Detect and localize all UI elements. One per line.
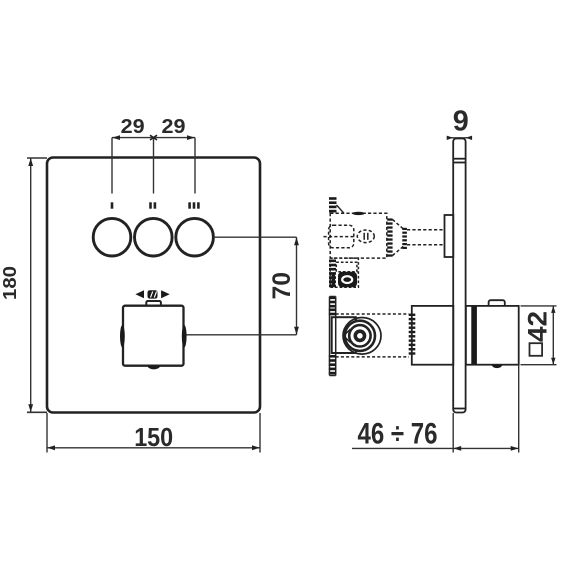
cartridge ring 1 bbox=[355, 331, 364, 340]
cartridge ring 3 bbox=[345, 321, 375, 351]
wall plate cap line bottom bbox=[453, 408, 465, 410]
valve body bbox=[330, 213, 387, 258]
knob index mark I bbox=[111, 202, 114, 208]
dim 180 arrow bottom bbox=[28, 404, 33, 412]
wall plate cap line top b bbox=[453, 162, 465, 164]
handle top tab bbox=[146, 301, 161, 306]
dim 70 arrow top bbox=[294, 237, 299, 245]
dim 42 line bbox=[552, 306, 554, 365]
svg-text:70: 70 bbox=[268, 272, 296, 300]
bracket teeth mid (between valves) bbox=[329, 260, 336, 288]
mounting bracket strip bbox=[330, 297, 336, 376]
cartridge outer ellipse bbox=[343, 318, 381, 355]
svg-text:29: 29 bbox=[162, 116, 186, 138]
boss on valve body top bbox=[352, 212, 364, 215]
stem flange bbox=[445, 215, 454, 257]
dim 150 arrow left bbox=[47, 445, 55, 450]
dim 42 arrow bottom bbox=[551, 358, 555, 365]
dim 150 extension line right bbox=[259, 413, 261, 453]
knob index mark III bbox=[188, 202, 199, 208]
sleeve bbox=[412, 306, 454, 365]
dim 9 line bbox=[448, 137, 471, 139]
mixing arrow centre marks bbox=[148, 290, 158, 298]
svg-text:9: 9 bbox=[453, 106, 469, 138]
extension line handle face down bbox=[518, 365, 520, 453]
cartridge left wedge bbox=[344, 329, 351, 343]
dim 29-29 line bbox=[112, 137, 195, 139]
handle left bump bbox=[120, 325, 125, 347]
bracket slant (upper valve) bbox=[337, 205, 345, 213]
mixing arrow left bbox=[135, 290, 144, 298]
bracket teeth small (below outlet) bbox=[330, 297, 337, 308]
dim 29 tick right bbox=[187, 135, 195, 140]
extension line bottom-left bbox=[27, 411, 47, 413]
handle square bbox=[123, 306, 184, 366]
knob 1 bbox=[93, 218, 131, 256]
dim 46-76 arrow right bbox=[511, 446, 519, 451]
dim 46-76 arrow left bbox=[453, 446, 461, 451]
dim 180 arrow top bbox=[28, 158, 33, 166]
threaded neck (upper valve) bbox=[402, 228, 407, 249]
cartridge hidden body bbox=[336, 314, 409, 357]
dim 180 line bbox=[30, 158, 32, 412]
svg-text:150: 150 bbox=[134, 422, 173, 452]
inlet midline bbox=[324, 236, 354, 238]
leader from knob 3 to dim 70 bbox=[214, 236, 297, 238]
front plate bbox=[47, 158, 260, 413]
dim 46-76 line bbox=[352, 447, 519, 449]
dim 29 tick left bbox=[112, 135, 120, 140]
dim 42 extension bottom bbox=[521, 364, 557, 366]
handle back ring (dark band) bbox=[471, 307, 477, 365]
cartridge ring 2 bbox=[349, 325, 370, 346]
dim 42 extension top bbox=[521, 305, 557, 307]
svg-text:180: 180 bbox=[0, 266, 20, 300]
dim 29 extension line 1 bbox=[111, 138, 113, 194]
dim 9 arrow left bbox=[447, 136, 454, 140]
dim 29 extension line 2 bbox=[153, 138, 155, 194]
dim 150 arrow right bbox=[252, 445, 260, 450]
handle bottom bump (side) bbox=[492, 365, 503, 368]
dim 70 arrow bottom bbox=[294, 327, 299, 335]
wall plate (side) bbox=[453, 139, 465, 413]
bracket teeth bottom (lower valve) bbox=[329, 355, 336, 374]
handle right bump bbox=[182, 325, 187, 347]
svg-text:46 ÷ 76: 46 ÷ 76 bbox=[358, 418, 438, 451]
extension line wall face down bbox=[452, 413, 454, 453]
svg-text:42: 42 bbox=[523, 311, 553, 342]
extension line top-left (plate top edge extended) bbox=[27, 157, 47, 159]
sleeve thread bbox=[409, 314, 416, 355]
threaded collar (upper valve) bbox=[387, 218, 392, 256]
bracket teeth top (upper valve) bbox=[329, 197, 337, 212]
handle bottom bump bbox=[147, 366, 160, 369]
taper to stem bbox=[393, 220, 405, 256]
outlet port dark block bbox=[338, 272, 357, 288]
dim 9 arrow right bbox=[466, 136, 473, 140]
knob index mark II bbox=[149, 202, 156, 208]
knob 2 bbox=[135, 218, 173, 256]
svg-text:29: 29 bbox=[121, 116, 145, 138]
screw slot bbox=[363, 233, 365, 240]
mixing arrow right bbox=[161, 290, 170, 298]
outlet elbow (below valve body) bbox=[330, 258, 358, 287]
screw head bbox=[357, 230, 374, 243]
cartridge body bbox=[332, 317, 356, 353]
handle (side) bbox=[466, 306, 519, 365]
dim 29 tick middle bbox=[150, 135, 157, 140]
dim 42 arrow top bbox=[551, 306, 555, 313]
outlet hatch left bbox=[332, 274, 336, 287]
bracket left edge bbox=[329, 297, 331, 376]
dim 29 extension line 3 bbox=[194, 138, 196, 194]
inlet port bbox=[329, 225, 354, 248]
handle top tab (side) bbox=[489, 300, 505, 305]
dim 150 extension line left bbox=[46, 413, 48, 453]
knob 3 bbox=[176, 218, 214, 256]
dim 70 line bbox=[296, 237, 298, 335]
wall plate cap line top a bbox=[453, 158, 465, 160]
stem bbox=[407, 230, 445, 245]
dim 150 line bbox=[47, 447, 260, 449]
bracket teeth top (lower valve) bbox=[329, 309, 336, 316]
outlet port white ring bbox=[342, 276, 352, 283]
leader from handle to dim 70 bbox=[184, 334, 297, 336]
